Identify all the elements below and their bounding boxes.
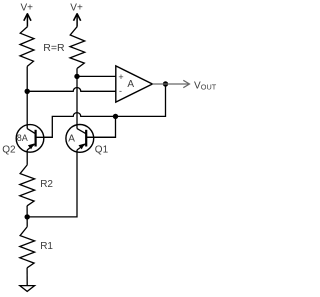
svg-text:V+: V+: [70, 3, 83, 14]
svg-text:8A: 8A: [17, 133, 28, 143]
svg-text:R2: R2: [40, 179, 53, 190]
svg-text:Q1: Q1: [95, 144, 109, 155]
svg-text:R1: R1: [40, 241, 53, 252]
svg-text:A: A: [127, 79, 134, 90]
svg-text:+: +: [118, 72, 123, 82]
svg-text:A: A: [68, 134, 75, 145]
svg-text:-: -: [119, 86, 122, 96]
svg-text:OUT: OUT: [201, 83, 217, 92]
svg-text:Q2: Q2: [2, 144, 16, 155]
svg-text:V+: V+: [21, 2, 34, 13]
svg-text:R=R: R=R: [43, 42, 65, 54]
